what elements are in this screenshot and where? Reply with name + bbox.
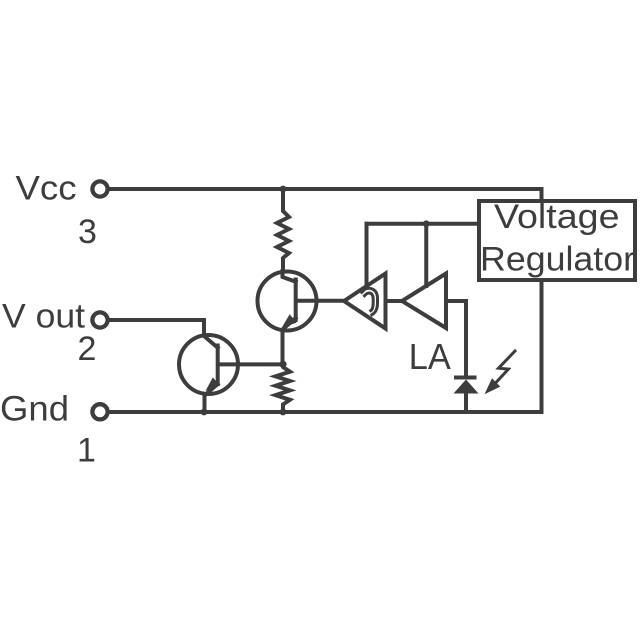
wire Q1 emitter to R2 node (281, 331, 285, 364)
terminal pin 2 (V out) (92, 312, 107, 327)
voltage regulator box (479, 198, 635, 280)
wire U1 supply feed (365, 224, 369, 286)
buffer U2 (402, 274, 446, 329)
svg-text:LA: LA (409, 336, 452, 377)
wire V out to Q2 base (108, 320, 218, 348)
node junction Vcc/R1 (280, 186, 287, 193)
svg-text:V out: V out (2, 298, 86, 336)
terminal pin 3 (Vcc) (92, 181, 107, 196)
wire U2 input to photodiode (446, 301, 466, 376)
wire Q1 base to U1 output (317, 299, 344, 303)
wire Q2 collector to R2 node (238, 362, 283, 366)
resistor R2 (276, 364, 291, 412)
wire ground rail (108, 410, 542, 414)
wire U2 supply feed (424, 224, 428, 286)
svg-text:2: 2 (78, 330, 97, 368)
svg-text:Voltage: Voltage (494, 198, 620, 236)
light arrow (485, 351, 516, 394)
wire regulator to ground rail (540, 283, 544, 412)
wire regulator to amplifiers (367, 222, 478, 226)
svg-text:1: 1 (77, 432, 96, 470)
transistor Q2 (179, 334, 238, 413)
terminal pin 1 (Gnd) (92, 404, 107, 419)
node junction Q1/Q2/R2 (279, 361, 286, 368)
svg-text:Gnd: Gnd (0, 389, 69, 429)
wire U2 to U1 (386, 299, 403, 303)
transistor Q1 (258, 271, 318, 362)
photodiode LA (454, 378, 479, 413)
node junction R2/ground (280, 409, 287, 416)
node junction Q2 emitter/ground (201, 409, 208, 416)
resistor R1 (277, 191, 289, 271)
wire Vcc rail to regulator (108, 189, 542, 199)
svg-text:Regulator: Regulator (480, 241, 635, 279)
schmitt trigger U1 (344, 274, 386, 329)
node junction U2 feed (423, 220, 430, 227)
svg-text:Vcc: Vcc (16, 170, 77, 208)
svg-text:3: 3 (78, 213, 97, 251)
